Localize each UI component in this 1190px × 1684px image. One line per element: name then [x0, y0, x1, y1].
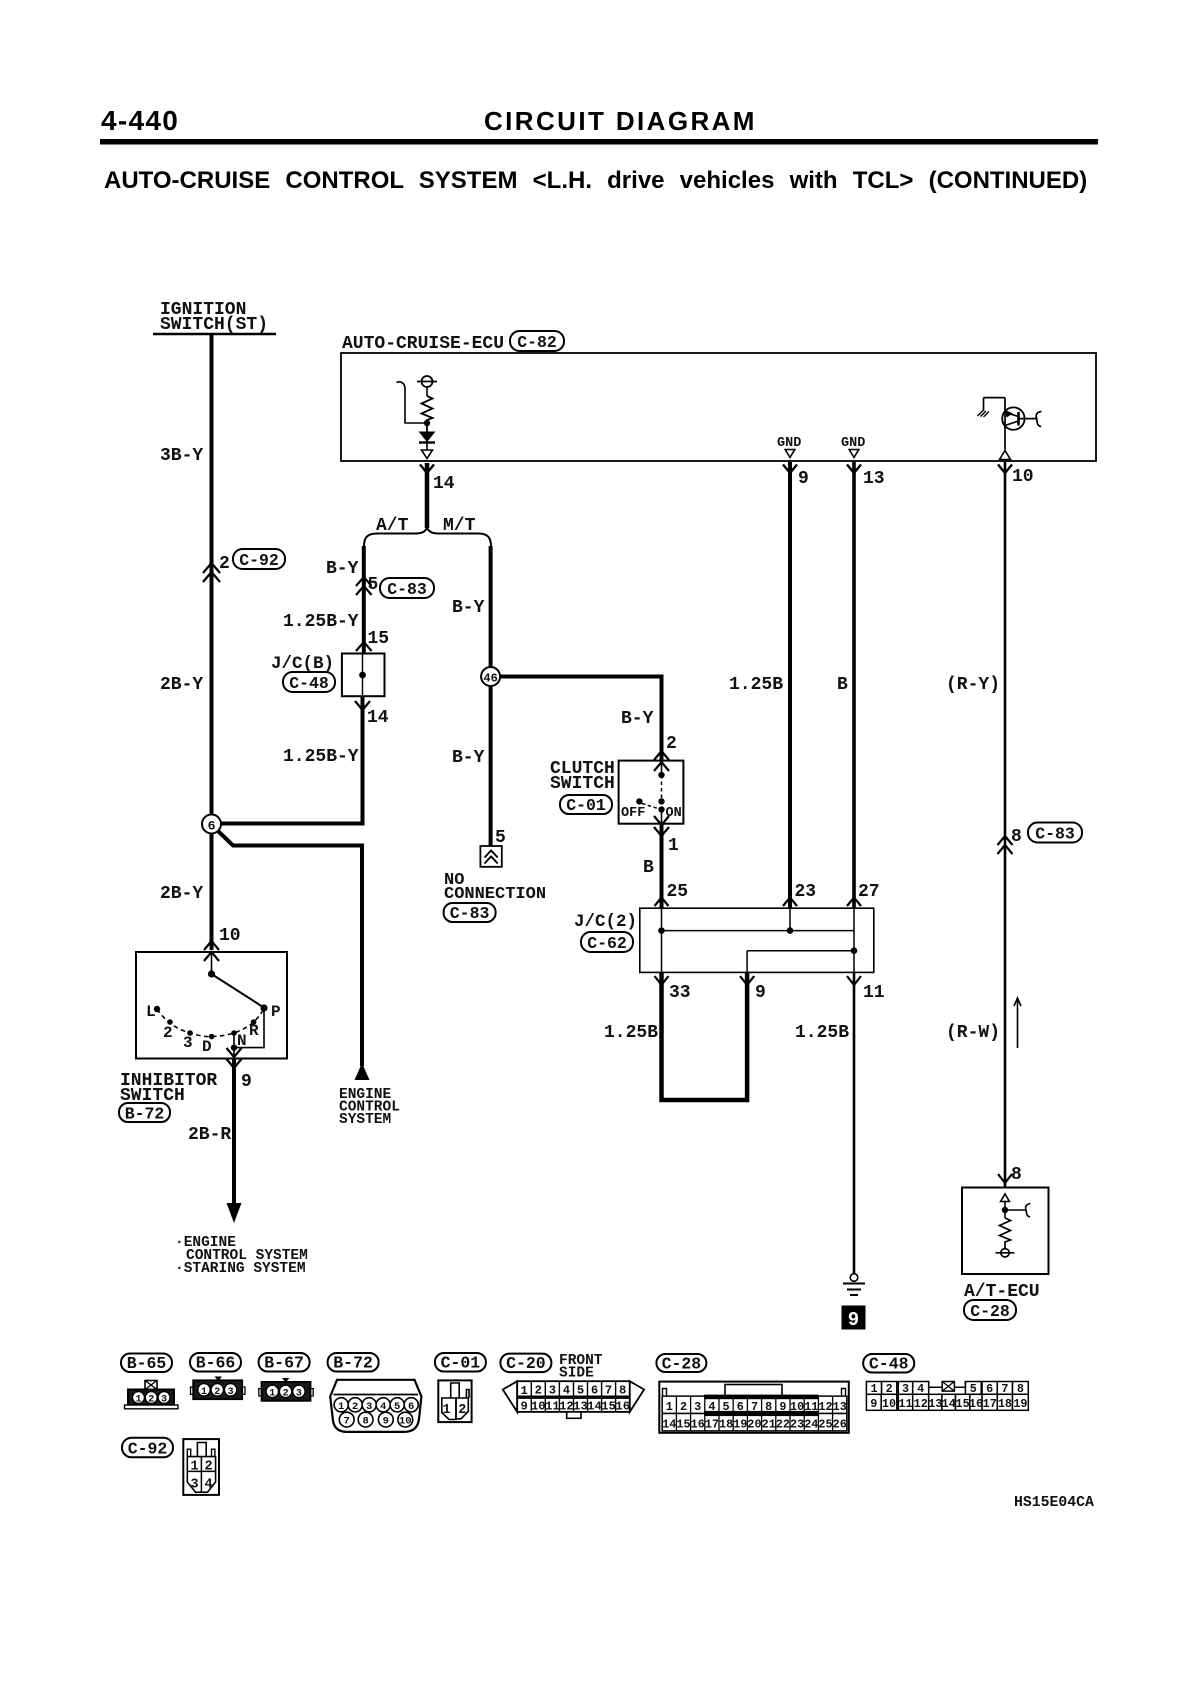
svg-text:3: 3 — [296, 1389, 302, 1400]
diode D inside ECU — [419, 432, 436, 451]
wire from node 46 right to clutch switch — [500, 677, 662, 761]
wire from ECU pin 14 down to brace — [425, 463, 430, 528]
connector B-66 drawing — [191, 1377, 246, 1400]
node 6 junction circle — [202, 815, 221, 834]
svg-text:3: 3 — [902, 1382, 909, 1396]
svg-text:SWITCH: SWITCH — [550, 774, 615, 794]
wire A/T branch down to J/C(B) — [362, 546, 366, 654]
ground point 9 marker — [842, 1306, 866, 1332]
inhibitor switch internals — [146, 952, 281, 1059]
pin 10 into inhibitor switch — [204, 926, 241, 961]
svg-text:6: 6 — [737, 1400, 744, 1414]
svg-text:7: 7 — [1001, 1382, 1008, 1396]
pin 10 arrowhead and number — [998, 465, 1034, 488]
svg-text:11: 11 — [545, 1399, 560, 1413]
svg-text:11: 11 — [863, 983, 885, 1003]
svg-text:C-48: C-48 — [869, 1355, 909, 1374]
svg-text:3: 3 — [549, 1384, 556, 1398]
svg-text:C-20: C-20 — [506, 1354, 546, 1373]
auto-cruise ECU box U1 — [341, 353, 1096, 461]
AT-MT BRANCH — [221, 463, 662, 923]
connector B-65 label — [121, 1354, 172, 1374]
CONNECTOR ROW — [121, 1353, 1094, 1511]
A/T-ECU internal pin triangle — [1001, 1194, 1010, 1202]
svg-text:17: 17 — [983, 1397, 997, 1411]
svg-text:6: 6 — [208, 819, 216, 834]
junction block J/C(B) box — [342, 654, 385, 697]
chassis ground hatch at transistor base — [978, 411, 990, 418]
svg-text:24: 24 — [804, 1418, 818, 1432]
svg-text:1.25B: 1.25B — [729, 675, 783, 695]
svg-text:2: 2 — [458, 1403, 466, 1418]
connector C-92 drawing — [183, 1439, 219, 1495]
svg-text:12: 12 — [914, 1397, 928, 1411]
svg-text:4: 4 — [917, 1382, 924, 1396]
svg-text:3: 3 — [228, 1387, 234, 1398]
svg-text:4-440: 4-440 — [101, 105, 179, 136]
pin 15 into J/C(B) — [356, 629, 389, 651]
svg-text:8: 8 — [765, 1400, 772, 1414]
svg-text:15: 15 — [676, 1418, 690, 1432]
svg-text:4: 4 — [708, 1400, 715, 1414]
svg-text:4: 4 — [204, 1478, 212, 1493]
svg-text:14: 14 — [587, 1399, 602, 1413]
wire pin 11 down to ground — [853, 972, 856, 1273]
wire M/T branch down through node 46 — [489, 546, 493, 846]
svg-text:B: B — [837, 675, 848, 695]
ignition switch (ST) label — [153, 300, 276, 335]
svg-text:1.25B-Y: 1.25B-Y — [283, 612, 359, 632]
svg-text:SIDE: SIDE — [559, 1366, 594, 1382]
svg-text:CONNECTION: CONNECTION — [444, 885, 546, 904]
svg-text:B-Y: B-Y — [452, 598, 485, 618]
wire: junction 6 to engine control system arrow — [218, 831, 370, 1080]
svg-text:9: 9 — [848, 1309, 859, 1331]
svg-text:9: 9 — [870, 1397, 877, 1411]
svg-text:7: 7 — [751, 1400, 758, 1414]
svg-text:26: 26 — [833, 1418, 847, 1432]
NO CONNECTION label (C-83) — [444, 871, 546, 923]
connector C-28 drawing — [659, 1382, 849, 1433]
svg-text:AUTO-CRUISE-ECU: AUTO-CRUISE-ECU — [342, 334, 504, 354]
pin 25 into J/C(2) — [655, 882, 689, 906]
pin 10 triangle on ECU edge — [1000, 451, 1011, 460]
svg-text:23: 23 — [790, 1418, 804, 1432]
svg-text:10: 10 — [790, 1400, 804, 1414]
pin 13 arrowhead and number — [847, 465, 885, 490]
svg-text:8: 8 — [362, 1416, 368, 1428]
svg-text:2B-Y: 2B-Y — [160, 884, 203, 904]
ECU BOX — [341, 331, 1096, 494]
connector crossing pin 2 (C-92) — [203, 549, 285, 582]
CLUTCH AND JC2 — [550, 462, 885, 1331]
svg-text:C-92: C-92 — [128, 1439, 168, 1458]
svg-text:B-Y: B-Y — [452, 748, 485, 768]
GND label pin 13 — [841, 436, 865, 458]
svg-text:7: 7 — [605, 1384, 612, 1398]
svg-text:18: 18 — [998, 1397, 1012, 1411]
svg-text:B-66: B-66 — [196, 1354, 236, 1373]
connector B-72 drawing — [330, 1380, 421, 1432]
wire ECU pin 10 down to A/T-ECU — [1004, 462, 1007, 1188]
svg-text:2: 2 — [666, 734, 677, 754]
power symbol inside ECU — [417, 376, 437, 396]
HEADER — [100, 105, 1098, 194]
svg-text:16: 16 — [691, 1418, 705, 1432]
pin 33 out of J/C(2) — [655, 976, 691, 1003]
svg-text:1: 1 — [135, 1395, 141, 1406]
svg-text:18: 18 — [719, 1418, 733, 1432]
svg-text:9: 9 — [798, 469, 809, 489]
svg-text:SYSTEM: SYSTEM — [339, 1112, 391, 1128]
connector B-67 drawing — [259, 1378, 313, 1401]
J/C(B) labels (C-48) — [271, 654, 335, 693]
pin 9 out of inhibitor switch — [227, 1048, 252, 1092]
pin 27 into J/C(2) — [847, 882, 880, 906]
svg-text:19: 19 — [733, 1418, 747, 1432]
connector C-92 label — [122, 1438, 173, 1459]
svg-text:5: 5 — [495, 828, 506, 848]
pin 14 arrowhead and number — [420, 465, 455, 495]
pin 14 out of J/C(B) — [355, 701, 389, 728]
svg-text:1: 1 — [668, 836, 679, 856]
svg-text:C-62: C-62 — [587, 934, 627, 953]
svg-text:4: 4 — [380, 1401, 386, 1413]
wire clutch switch to J/C(2) pin 25 — [660, 824, 664, 909]
svg-text:11: 11 — [898, 1397, 912, 1411]
connector C-01 label — [435, 1353, 486, 1373]
pin 9 out of J/C(2) — [740, 976, 766, 1003]
IGNITION COLUMN — [119, 300, 400, 1277]
direction arrow up — [1014, 998, 1021, 1048]
svg-text:46: 46 — [483, 672, 497, 686]
connector C-20 drawing — [503, 1381, 644, 1418]
wire ECU pin 9 down to J/C(2) pin 23 — [788, 462, 792, 908]
svg-text:2: 2 — [886, 1382, 893, 1396]
svg-text:5: 5 — [723, 1400, 730, 1414]
svg-text:9: 9 — [241, 1072, 252, 1092]
svg-text:(R-Y): (R-Y) — [946, 675, 1000, 695]
svg-text:2: 2 — [163, 1024, 173, 1042]
svg-text:9: 9 — [521, 1399, 528, 1413]
svg-text:3: 3 — [366, 1401, 372, 1413]
svg-text:1.25B: 1.25B — [604, 1023, 658, 1043]
svg-text:1: 1 — [201, 1387, 207, 1398]
svg-text:P: P — [271, 1003, 281, 1021]
A/T-ECU box — [962, 1188, 1049, 1275]
wire 2B-R to engine control / starting system — [188, 1059, 242, 1224]
resistor R inside ECU — [422, 396, 433, 432]
pin 1 out of clutch switch — [654, 816, 679, 856]
svg-text:B: B — [643, 858, 654, 878]
svg-text:B-65: B-65 — [127, 1354, 167, 1373]
svg-text:10: 10 — [1012, 467, 1034, 487]
svg-text:14: 14 — [367, 708, 389, 728]
node 46 junction circle — [481, 667, 500, 686]
svg-text:B-Y: B-Y — [621, 709, 654, 729]
svg-text:19: 19 — [1013, 1397, 1027, 1411]
svg-text:25: 25 — [818, 1418, 832, 1432]
svg-text:(R-W): (R-W) — [946, 1023, 1000, 1043]
brace A/T - M/T — [364, 528, 491, 547]
svg-text:3: 3 — [694, 1400, 701, 1414]
junction block J/C(2) box — [640, 908, 874, 972]
svg-text:SWITCH(ST): SWITCH(ST) — [160, 315, 268, 335]
svg-text:8: 8 — [1017, 1382, 1024, 1396]
connector B-65 drawing — [125, 1381, 179, 1409]
J/C(2) labels (C-62) — [574, 912, 637, 953]
GND label pin 9 — [777, 436, 801, 458]
svg-text:9: 9 — [779, 1400, 786, 1414]
svg-text:17: 17 — [705, 1418, 719, 1432]
svg-text:4: 4 — [563, 1384, 570, 1398]
svg-text:10: 10 — [399, 1416, 412, 1428]
svg-text:13: 13 — [928, 1397, 942, 1411]
pin 8 into A/T-ECU — [998, 1165, 1022, 1185]
A/T-ECU labels (C-28) — [964, 1282, 1040, 1321]
inhibitor switch labels — [119, 1071, 217, 1124]
svg-text:C-92: C-92 — [239, 551, 279, 570]
svg-text:B-72: B-72 — [125, 1105, 165, 1124]
connector C-01 drawing — [438, 1380, 471, 1422]
connector B-67 label — [259, 1353, 310, 1373]
svg-text:2: 2 — [148, 1395, 154, 1406]
svg-text:11: 11 — [804, 1400, 818, 1414]
svg-text:B-Y: B-Y — [326, 559, 359, 579]
svg-text:2: 2 — [352, 1401, 358, 1413]
svg-text:1: 1 — [338, 1401, 344, 1413]
svg-text:7: 7 — [344, 1416, 350, 1428]
svg-text:10: 10 — [531, 1399, 546, 1413]
connector crossing pin 8 (C-83) — [998, 823, 1083, 855]
svg-text:R: R — [249, 1022, 259, 1040]
svg-text:C-83: C-83 — [387, 580, 427, 599]
clutch switch labels (C-01) — [550, 759, 615, 815]
svg-text:1: 1 — [870, 1382, 877, 1396]
no connection terminal symbol — [480, 846, 501, 867]
svg-text:HS15E04CA: HS15E04CA — [1014, 1495, 1094, 1511]
svg-text:6: 6 — [408, 1401, 414, 1413]
svg-text:C-82: C-82 — [517, 333, 557, 352]
svg-text:15: 15 — [368, 629, 390, 649]
connector C-20 label — [500, 1354, 551, 1374]
pin 2 into clutch switch — [654, 734, 677, 771]
svg-text:1: 1 — [269, 1389, 275, 1400]
svg-text:16: 16 — [615, 1399, 630, 1413]
header rule — [100, 139, 1098, 145]
svg-text:B-67: B-67 — [264, 1354, 304, 1373]
svg-text:3: 3 — [183, 1034, 193, 1052]
svg-text:1: 1 — [442, 1403, 450, 1418]
J/C(2) internal wires — [658, 908, 857, 972]
svg-text:8: 8 — [619, 1384, 626, 1398]
svg-text:15: 15 — [956, 1397, 970, 1411]
A/T-ECU internal circuit — [996, 1202, 1031, 1258]
svg-text:10: 10 — [219, 926, 241, 946]
svg-text:5: 5 — [394, 1401, 400, 1413]
svg-text:C-28: C-28 — [970, 1302, 1010, 1321]
svg-text:2: 2 — [535, 1384, 542, 1398]
inhibitor switch box — [136, 952, 287, 1059]
junction dot — [424, 420, 430, 426]
svg-text:21: 21 — [762, 1418, 776, 1432]
pin 9 arrowhead and number — [783, 465, 809, 490]
svg-text:1: 1 — [190, 1460, 198, 1475]
svg-text:13: 13 — [833, 1400, 847, 1414]
svg-text:OFF: OFF — [621, 806, 645, 821]
pin 23 into J/C(2) — [783, 882, 816, 906]
svg-text:3: 3 — [161, 1395, 167, 1406]
svg-text:A/T: A/T — [376, 516, 409, 536]
svg-text:27: 27 — [858, 882, 880, 902]
label FRONT SIDE — [559, 1353, 603, 1382]
engine control / staring system text — [175, 1235, 308, 1277]
svg-text:2: 2 — [214, 1387, 220, 1398]
svg-text:14: 14 — [662, 1418, 676, 1432]
svg-text:C-83: C-83 — [450, 904, 490, 923]
wire U-loop pin 33 to pin 9 — [662, 972, 748, 1100]
svg-text:1: 1 — [666, 1400, 673, 1414]
svg-text:14: 14 — [942, 1397, 956, 1411]
svg-text:13: 13 — [863, 469, 885, 489]
svg-text:J/C(2): J/C(2) — [574, 912, 637, 932]
svg-text:C-01: C-01 — [441, 1354, 481, 1373]
svg-text:C-28: C-28 — [662, 1354, 702, 1373]
svg-text:5: 5 — [577, 1384, 584, 1398]
transistor Q inside ECU — [984, 398, 1038, 450]
auto-cruise ECU label (C-82) — [342, 331, 564, 354]
pin 14 triangle on ECU edge — [422, 450, 433, 459]
connector B-72 label — [328, 1353, 379, 1373]
svg-text:25: 25 — [667, 882, 689, 902]
svg-text:·STARING SYSTEM: ·STARING SYSTEM — [175, 1261, 306, 1277]
svg-text:C-01: C-01 — [566, 796, 606, 815]
svg-text:2B-R: 2B-R — [188, 1125, 231, 1145]
svg-text:C-48: C-48 — [289, 674, 329, 693]
svg-text:AUTO-CRUISE CONTROL SYSTEM <L.: AUTO-CRUISE CONTROL SYSTEM <L.H. drive v… — [104, 167, 1087, 194]
wire ECU pin 13 down to J/C(2) pin 27 — [852, 462, 856, 908]
svg-text:33: 33 — [669, 983, 691, 1003]
svg-text:3B-Y: 3B-Y — [160, 446, 203, 466]
RIGHT COLUMN — [946, 462, 1082, 1321]
svg-text:B-72: B-72 — [333, 1354, 373, 1373]
ground symbol — [843, 1274, 865, 1295]
connector C-28 label — [656, 1354, 706, 1373]
clutch switch internals OFF/ON — [621, 761, 682, 824]
svg-text:1.25B: 1.25B — [795, 1023, 849, 1043]
engine control system label (middle) — [339, 1087, 400, 1128]
svg-text:15: 15 — [601, 1399, 616, 1413]
svg-text:3: 3 — [190, 1478, 198, 1493]
svg-text:2: 2 — [219, 554, 230, 574]
svg-text:6: 6 — [986, 1382, 993, 1396]
svg-text:2: 2 — [680, 1400, 687, 1414]
svg-text:1: 1 — [521, 1384, 528, 1398]
svg-text:1.25B-Y: 1.25B-Y — [283, 747, 359, 767]
svg-text:12: 12 — [818, 1400, 832, 1414]
svg-text:20: 20 — [747, 1418, 761, 1432]
svg-text:10: 10 — [882, 1397, 896, 1411]
svg-text:M/T: M/T — [443, 516, 476, 536]
svg-text:6: 6 — [591, 1384, 598, 1398]
svg-text:2: 2 — [204, 1460, 212, 1475]
hook to other circuit (right of transistor) — [1036, 412, 1041, 427]
wire: ignition switch down to inhibitor switch — [210, 335, 214, 950]
connector crossing pin 5 (C-83) — [356, 575, 434, 599]
svg-text:23: 23 — [795, 882, 817, 902]
svg-text:8: 8 — [1011, 1165, 1022, 1185]
svg-text:L: L — [146, 1003, 156, 1021]
svg-text:9: 9 — [383, 1416, 389, 1428]
connector C-48 label — [863, 1354, 914, 1374]
svg-text:22: 22 — [776, 1418, 790, 1432]
svg-text:9: 9 — [755, 983, 766, 1003]
wire from J/C(B) down and left to node 6 — [221, 696, 363, 824]
pin 11 out of J/C(2) — [847, 976, 885, 1003]
clutch switch box — [619, 761, 684, 824]
svg-text:14: 14 — [433, 474, 455, 494]
svg-text:C-83: C-83 — [1035, 825, 1075, 844]
svg-text:D: D — [202, 1038, 212, 1056]
svg-text:5: 5 — [970, 1382, 977, 1396]
svg-text:CIRCUIT DIAGRAM: CIRCUIT DIAGRAM — [484, 106, 757, 136]
svg-text:2B-Y: 2B-Y — [160, 675, 203, 695]
svg-text:2: 2 — [283, 1389, 289, 1400]
connector B-66 label — [190, 1353, 241, 1373]
connector C-48 drawing — [866, 1382, 1028, 1411]
hook to other circuit (left bracket) — [397, 382, 426, 423]
svg-text:16: 16 — [969, 1397, 983, 1411]
